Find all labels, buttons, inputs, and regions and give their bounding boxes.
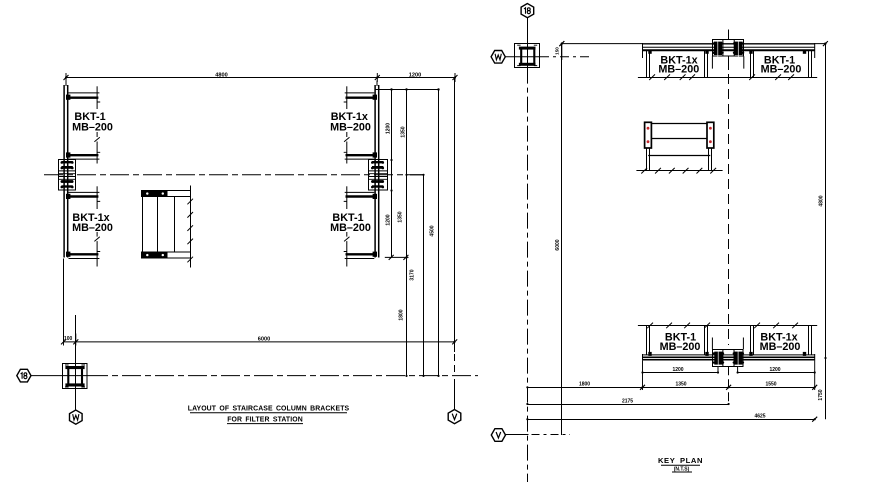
svg-text:MB–200: MB–200 <box>330 122 371 134</box>
svg-text:4625: 4625 <box>754 414 765 420</box>
centre line below bottom column <box>728 366 730 404</box>
label BKT-1x / MB-200 (key plan bottom-right) <box>760 331 801 352</box>
svg-text:4800: 4800 <box>215 72 227 78</box>
dimension line 4625 (key plan) <box>526 414 817 422</box>
svg-text:1800: 1800 <box>579 382 590 388</box>
svg-text:1200: 1200 <box>769 367 780 373</box>
grid bubble V <box>448 410 461 424</box>
svg-text:3170: 3170 <box>410 269 416 280</box>
svg-text:6000: 6000 <box>555 239 561 250</box>
stair legs (elevation) <box>647 148 712 170</box>
centre column section (key plan bottom) <box>713 349 745 366</box>
label BKT-1 / MB-200 (key plan top-right) <box>761 55 802 76</box>
tick hook at bottom flange level <box>385 255 409 260</box>
bracket top-right end tick line <box>344 86 350 163</box>
bracket bottom-right flanges <box>345 192 377 258</box>
grid line 18 (vertical) <box>527 18 529 68</box>
svg-text:MB–200: MB–200 <box>658 64 699 76</box>
dimension line 4800/1200 (top) <box>64 73 458 82</box>
stair post left with red bolts <box>645 122 652 148</box>
svg-text:2175: 2175 <box>622 398 633 404</box>
bracket top-left flanges <box>66 93 99 159</box>
ground line with break marks <box>636 168 722 174</box>
stair landing (plan) top chord <box>142 191 191 197</box>
dimension line 100/6000 (bottom) <box>61 334 457 346</box>
top dimension line (key plan) <box>559 41 828 46</box>
svg-text:MB–200: MB–200 <box>761 64 802 76</box>
bracket top-right flanges <box>345 93 377 159</box>
top break line with break marks <box>638 74 817 80</box>
svg-text:1800: 1800 <box>399 309 405 320</box>
dim stubs below bottom column <box>718 366 738 373</box>
dim label 4800 <box>215 72 227 78</box>
vertical line 4800/1750 (right of key plan) <box>818 44 827 420</box>
svg-text:1750: 1750 <box>818 389 824 400</box>
base column section at W/18 <box>63 364 88 389</box>
stair (elevation) low rail <box>648 155 710 157</box>
svg-text:MB–200: MB–200 <box>72 122 113 134</box>
grid line V (vertical) <box>454 78 456 410</box>
dimension line 2175 (key plan) <box>526 398 729 405</box>
grid bubble V (key plan) <box>491 429 505 442</box>
column edge line continuation to dim line <box>63 259 65 342</box>
label BKT-1x / MB-200 (key plan top-left) <box>658 55 699 76</box>
svg-text:6000: 6000 <box>258 337 270 343</box>
grid bubble 18 (top) <box>521 4 534 18</box>
vertical dim line C (3170) <box>410 174 425 377</box>
centre line (horizontal, mid) <box>44 174 423 176</box>
column grid-line right (double line) <box>375 85 379 258</box>
svg-text:1550: 1550 <box>765 382 776 388</box>
column splice section left <box>59 160 76 191</box>
dimension line 1800/1350/1550 (key plan) <box>526 375 817 391</box>
svg-text:1200: 1200 <box>386 123 392 134</box>
reference line (right top) <box>376 88 440 90</box>
title: layout of staircase column brackets <box>188 406 350 424</box>
bracket top-left end tick line <box>94 86 100 163</box>
grid bubble 18 (left) <box>17 369 31 382</box>
stair (elevation) mid rail <box>652 138 707 140</box>
vertical dim line B (1350/1350/1800) <box>405 90 407 378</box>
svg-text:1350: 1350 <box>675 382 686 388</box>
dim label 1200 <box>409 72 421 78</box>
stair (elevation) top rail <box>652 123 707 125</box>
svg-text:MB–200: MB–200 <box>660 341 701 353</box>
title: key plan <box>658 456 703 465</box>
label BKT-1 / MB-200 (key plan bottom-left) <box>660 331 701 352</box>
stair stringer verticals (plan) <box>143 197 175 252</box>
bottom bracket legs <box>647 326 812 355</box>
label BKT-1 / MB-200 (top-left) <box>72 109 113 134</box>
bottom beam (key plan) <box>643 352 815 361</box>
svg-text:1200: 1200 <box>386 214 392 225</box>
svg-text:FOR FILTER STATION: FOR FILTER STATION <box>227 417 303 424</box>
svg-text:100: 100 <box>64 336 73 342</box>
bracket bottom-left end tick line <box>94 186 100 266</box>
svg-text:LAYOUT OF STAIRCASE COLUMN BRA: LAYOUT OF STAIRCASE COLUMN BRACKETS <box>188 406 350 413</box>
vertical line 6000 (left of key plan) <box>555 44 561 435</box>
bracket bottom-right end tick line <box>344 186 350 266</box>
svg-text:MB–200: MB–200 <box>330 222 371 234</box>
centre column section (key plan top) <box>712 30 744 71</box>
svg-text:1350: 1350 <box>398 211 404 222</box>
centre grid dashed line (key plan vertical mid) <box>728 74 730 345</box>
top bracket legs <box>647 51 812 77</box>
svg-text:MB–200: MB–200 <box>760 341 801 353</box>
column grid-line left (double line) <box>64 85 68 258</box>
LEFT-DRAWING <box>17 72 478 424</box>
offset dim 150 <box>555 41 565 60</box>
stair landing (plan) bottom chord <box>142 252 191 258</box>
svg-text:KEY PLAN: KEY PLAN <box>658 456 703 465</box>
vertical dim line A (1200/1200) <box>390 90 392 258</box>
column splice section right <box>368 160 387 191</box>
grid bubble W <box>70 410 83 424</box>
svg-text:MB–200: MB–200 <box>72 222 113 234</box>
dimension line 1200/1200 (key plan) <box>641 361 815 375</box>
dim label 100 <box>64 336 73 342</box>
label BKT-1 / MB-200 (bottom-right) <box>330 209 372 234</box>
svg-text:1200: 1200 <box>672 367 683 373</box>
bottom break line with break marks <box>638 323 817 329</box>
stair post right with red bolts <box>707 122 714 148</box>
svg-text:4500: 4500 <box>430 225 436 236</box>
grid line W (vertical, bottom-left) <box>75 315 77 410</box>
grid bubble W (left) <box>491 51 505 64</box>
dim label 6000 <box>258 337 270 343</box>
svg-text:4800: 4800 <box>819 195 825 206</box>
label BKT-1x / MB-200 (bottom-left) <box>71 209 113 234</box>
grid line 18 (horizontal) <box>31 375 89 377</box>
svg-text:1200: 1200 <box>409 72 421 78</box>
svg-text:1350: 1350 <box>401 126 407 137</box>
svg-text:150: 150 <box>555 47 560 55</box>
stair cut line with break marks (plan right) <box>187 186 193 268</box>
top beam (key plan) <box>643 43 815 58</box>
label BKT-1x / MB-200 (top-right) <box>330 109 372 134</box>
grid line W (horizontal) <box>505 56 540 58</box>
vertical dim line D (4500) <box>437 90 439 378</box>
bracket bottom-left flanges <box>66 192 99 258</box>
column section at W/18 (key plan) <box>515 44 540 68</box>
column top stub <box>65 81 67 87</box>
grid line V (horizontal, key plan) <box>506 434 529 436</box>
rotated dim labels right side <box>386 123 436 321</box>
KEY-PLAN <box>491 4 828 483</box>
